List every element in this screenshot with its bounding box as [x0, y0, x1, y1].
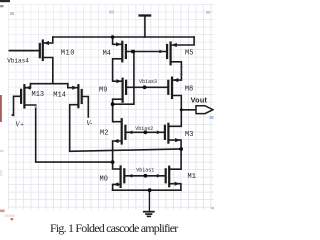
svg-text:Vbias3: Vbias3 [139, 79, 157, 85]
svg-text:M9: M9 [99, 87, 107, 95]
svg-text:Fig. 1 Folded cascode amplifie: Fig. 1 Folded cascode amplifier [50, 221, 178, 235]
svg-text:Vout: Vout [191, 96, 208, 105]
svg-text:M8: M8 [185, 86, 193, 94]
svg-text:Vbias4: Vbias4 [7, 58, 29, 65]
svg-text:M4: M4 [103, 50, 111, 58]
svg-text:M14: M14 [53, 91, 66, 99]
svg-text:M5: M5 [185, 50, 193, 58]
svg-text:M0: M0 [100, 176, 108, 184]
svg-text:M2: M2 [100, 130, 108, 138]
svg-text:M1: M1 [188, 173, 196, 181]
svg-text:Vbias1: Vbias1 [136, 167, 154, 173]
svg-text:M13: M13 [32, 91, 45, 99]
svg-text:V+: V+ [15, 120, 24, 128]
svg-text:V-: V- [86, 119, 93, 127]
svg-text:M3: M3 [185, 131, 193, 139]
svg-text:M10: M10 [61, 50, 75, 58]
svg-text:Vbias2: Vbias2 [135, 126, 153, 132]
